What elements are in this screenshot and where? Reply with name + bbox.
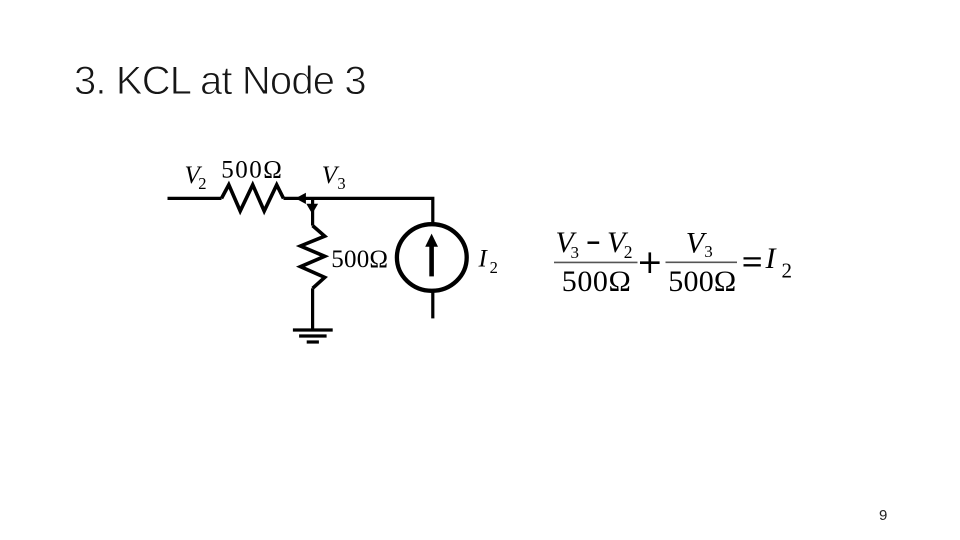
- equation: plus sign: [640, 252, 660, 273]
- svg-text:2: 2: [490, 258, 498, 277]
- label V3 node name: [322, 162, 346, 193]
- svg-text:3: 3: [337, 174, 345, 193]
- equation: second fraction numerator V3: [686, 227, 713, 262]
- svg-text:2: 2: [198, 174, 206, 193]
- wire: node 3 horizontal run and corner down to current source: [284, 198, 433, 222]
- resistor R2 500ohm (vertical): [301, 226, 325, 289]
- ground symbol: [293, 330, 333, 342]
- equation: second fraction bar: [666, 261, 738, 263]
- equation: first fraction numerator V3 - V2: [556, 226, 633, 262]
- equation: result I2: [765, 242, 793, 282]
- wire: below current source: [431, 292, 434, 319]
- svg-text:3: 3: [571, 243, 580, 262]
- resistor R1 500ohm (horizontal): [222, 185, 284, 211]
- svg-text:2: 2: [782, 259, 793, 283]
- svg-text:3. KCL at Node 3: 3. KCL at Node 3: [74, 59, 366, 103]
- current source arrow (up): [425, 234, 438, 277]
- current direction arrow down branch (pointing down): [306, 204, 318, 214]
- current direction arrow into node (pointing left): [295, 193, 306, 204]
- svg-text:500Ω: 500Ω: [331, 246, 388, 273]
- wire: vertical stub from node 3 to resistor R2: [311, 198, 314, 225]
- equation: first fraction bar: [554, 261, 638, 263]
- current source I2 circle: [397, 224, 467, 291]
- svg-text:9: 9: [879, 507, 887, 524]
- svg-text:500Ω: 500Ω: [221, 156, 283, 183]
- equation: equals sign: [744, 258, 761, 265]
- svg-text:2: 2: [624, 242, 633, 262]
- wire: left lead from V2 to resistor R1: [168, 197, 222, 200]
- label V2: [185, 162, 207, 193]
- wire: from resistor R2 down to ground: [311, 288, 314, 329]
- label I2: [478, 246, 498, 277]
- svg-text:3: 3: [704, 242, 713, 261]
- svg-text:500Ω: 500Ω: [562, 265, 632, 298]
- svg-text:500Ω: 500Ω: [668, 265, 736, 298]
